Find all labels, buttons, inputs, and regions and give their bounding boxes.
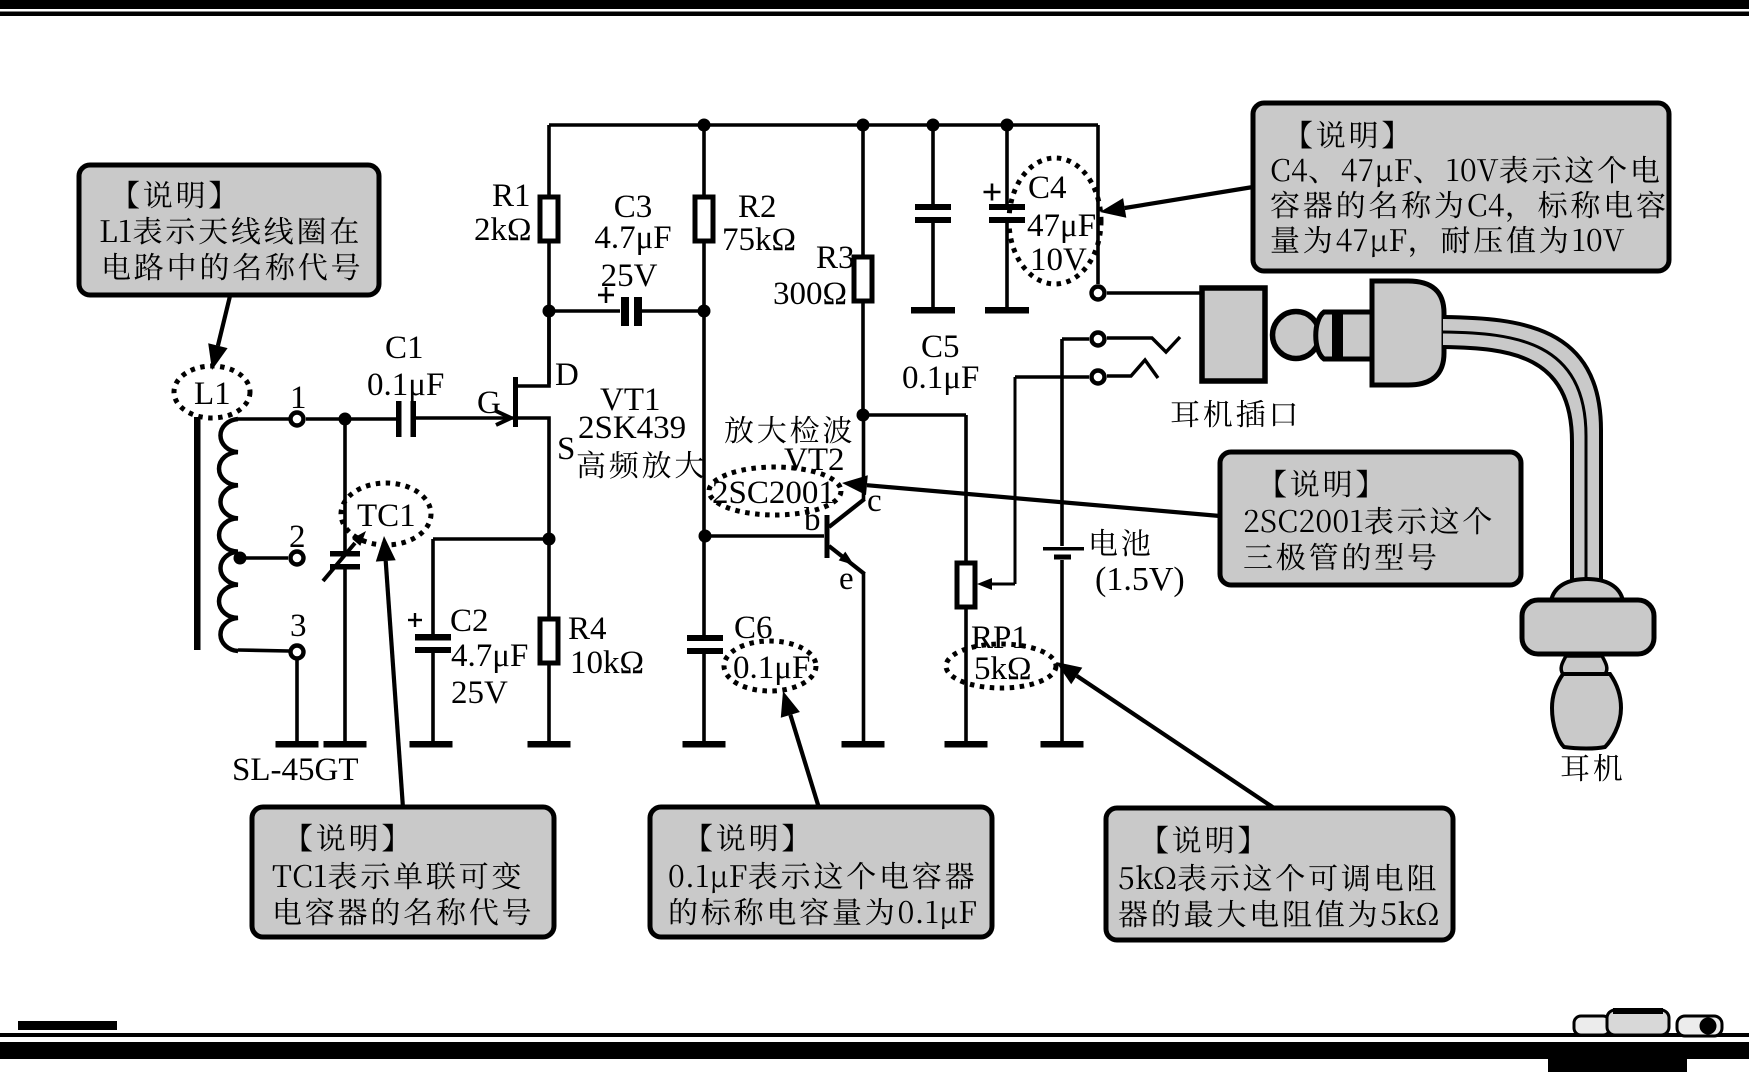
- dotted ellipse around C6 value: [724, 641, 816, 691]
- ground battery: [1041, 741, 1084, 748]
- resistor R2 75kΩ: [695, 125, 796, 635]
- svg-text:2SC2001: 2SC2001: [712, 475, 835, 511]
- svg-text:2kΩ: 2kΩ: [474, 212, 532, 248]
- terminal 1: [291, 413, 304, 426]
- node R3 top: [857, 119, 870, 132]
- variable capacitor TC1: [323, 419, 366, 741]
- terminal 2: [291, 552, 304, 565]
- inductor L1 antenna coil: [194, 417, 289, 651]
- RP1 wiper arrow: [977, 377, 1015, 590]
- headphone cable: [1443, 317, 1601, 587]
- svg-text:TC1: TC1: [357, 498, 416, 534]
- svg-text:4.7μF: 4.7μF: [594, 220, 671, 256]
- capacitor C4 47μF 10V: [984, 125, 1026, 307]
- svg-text:300Ω: 300Ω: [773, 276, 847, 312]
- dotted ellipse around TC1: [341, 483, 431, 545]
- node C4 top: [1001, 119, 1014, 132]
- svg-text:1: 1: [290, 380, 307, 416]
- ground R4: [528, 741, 571, 748]
- ground VT2 emitter: [842, 741, 885, 748]
- svg-text:R1: R1: [492, 178, 531, 214]
- callout box: L1 explanation: [79, 165, 379, 295]
- headphone earpiece dome: [1551, 579, 1623, 601]
- callout box: TC1 explanation: [252, 807, 554, 937]
- svg-text:L1: L1: [194, 376, 231, 412]
- jack terminal 1: [1092, 287, 1105, 300]
- svg-text:10V: 10V: [1030, 242, 1087, 278]
- ground RP1: [945, 741, 988, 748]
- resistor R4 10kΩ: [540, 539, 644, 741]
- arrow callout to TC1: [386, 561, 403, 808]
- battery 1.5V: [1043, 339, 1084, 741]
- svg-text:0.1μF: 0.1μF: [367, 367, 444, 403]
- label 放大检波: [725, 416, 753, 444]
- jack terminal 2: [1092, 333, 1105, 346]
- node VT1 source / C2 / R4 junction: [543, 533, 556, 546]
- node C5 top: [927, 119, 940, 132]
- arrow callout to VT2: [867, 485, 1220, 516]
- svg-text:10kΩ: 10kΩ: [570, 645, 644, 681]
- dotted ellipse around L1: [174, 366, 250, 418]
- svg-text:0.1μF: 0.1μF: [902, 360, 979, 396]
- ground C5: [911, 307, 955, 314]
- headphone neck: [1561, 656, 1607, 674]
- jack terminal 3: [1092, 371, 1105, 384]
- svg-text:4.7μF: 4.7μF: [451, 638, 528, 674]
- node VT2 base junction: [699, 530, 712, 543]
- svg-text:C1: C1: [385, 330, 424, 366]
- dotted ellipse around 2SC2001: [709, 467, 841, 515]
- label 耳机插口: [1172, 401, 1199, 428]
- node C3 right / R2 junction: [698, 305, 711, 318]
- svg-text:75kΩ: 75kΩ: [722, 222, 796, 258]
- svg-text:3: 3: [290, 608, 307, 644]
- svg-text:S: S: [557, 431, 575, 467]
- ground TC1: [324, 741, 367, 748]
- callout box: 0.1μF explanation: [650, 807, 992, 937]
- capacitor C5 0.1μF: [902, 125, 979, 396]
- node R3 bottom / collector junction: [857, 409, 870, 422]
- svg-text:(1.5V): (1.5V): [1095, 561, 1185, 598]
- capacitor C2 4.7μF 25V: [408, 539, 528, 741]
- callout box: C4 explanation: [1253, 103, 1669, 271]
- node terminal1/TC1 junction: [339, 413, 352, 426]
- wire rail to jack tip terminal: [1096, 125, 1100, 284]
- svg-text:2SK439: 2SK439: [578, 410, 686, 446]
- ground C6: [683, 741, 726, 748]
- label 电池: [1092, 529, 1117, 556]
- svg-text:47μF: 47μF: [1027, 208, 1096, 244]
- plug shaft: [1316, 312, 1372, 359]
- callout box: 2SC2001 explanation: [1220, 452, 1521, 585]
- svg-text:R2: R2: [738, 189, 777, 225]
- resistor R1 2kΩ: [474, 125, 558, 384]
- node coil tap: [234, 552, 247, 565]
- svg-text:R3: R3: [816, 240, 855, 276]
- svg-text:25V: 25V: [451, 675, 508, 711]
- headphone plug tip: [1273, 312, 1320, 359]
- callout box: 5kΩ explanation: [1106, 808, 1453, 940]
- transistor VT2 2SC2001: [705, 416, 882, 741]
- node R2 top: [698, 119, 711, 132]
- svg-text:5kΩ: 5kΩ: [974, 651, 1032, 687]
- svg-text:R4: R4: [568, 611, 607, 647]
- terminal 3: [291, 646, 304, 659]
- svg-text:e: e: [839, 561, 854, 597]
- arrow callout to C6: [790, 715, 819, 808]
- jack switch contact upper: [1107, 337, 1180, 352]
- resistor R3 300Ω: [773, 125, 872, 416]
- wire S node to C2: [433, 537, 549, 541]
- arrow callout to L1: [218, 296, 230, 346]
- wire jack terminal2 to battery: [1062, 337, 1089, 341]
- ground terminal3: [276, 741, 319, 748]
- arrow callout to C4: [1125, 187, 1253, 208]
- svg-text:D: D: [555, 357, 579, 393]
- svg-text:25V: 25V: [601, 258, 658, 294]
- potentiometer RP1 5kΩ: [863, 415, 1032, 741]
- node R1 bottom / C3 left junction: [543, 305, 556, 318]
- label 高频放大: [578, 451, 605, 479]
- svg-text:2: 2: [289, 519, 306, 555]
- label 耳机: [1562, 755, 1589, 782]
- headphone jack body: [1202, 288, 1265, 381]
- transistor VT1 2SK439 (FET): [416, 312, 686, 539]
- ground C4: [985, 307, 1029, 314]
- svg-text:SL-45GT: SL-45GT: [232, 752, 359, 788]
- dotted ellipse around 5kΩ: [946, 644, 1056, 688]
- capacitor C1 0.1μF: [367, 330, 444, 437]
- headphone bulb: [1552, 674, 1621, 749]
- dotted ellipse around C4 value: [1009, 158, 1101, 284]
- ground C2: [410, 741, 453, 748]
- capacitor C6 0.1μF: [687, 610, 773, 741]
- jack switch contact lower: [1107, 360, 1158, 378]
- arrow callout to RP1: [1077, 676, 1274, 808]
- wire jack terminal3 to wiper: [1015, 375, 1089, 379]
- wire power rail: [549, 123, 1098, 127]
- svg-text:0.1μF: 0.1μF: [733, 650, 810, 686]
- svg-text:G: G: [477, 385, 501, 421]
- wire jack terminal1 to body: [1107, 291, 1202, 295]
- plug insulator ring: [1332, 310, 1343, 360]
- svg-text:C4: C4: [1028, 170, 1067, 206]
- plug body: [1372, 281, 1444, 385]
- headphone earpiece body: [1522, 600, 1654, 654]
- svg-text:C2: C2: [450, 603, 489, 639]
- wire tap to terminal 2: [240, 556, 288, 560]
- capacitor C3 4.7μF 25V: [549, 189, 704, 326]
- wire terminal3 down: [295, 660, 299, 741]
- wire terminal1 to C1: [306, 417, 396, 421]
